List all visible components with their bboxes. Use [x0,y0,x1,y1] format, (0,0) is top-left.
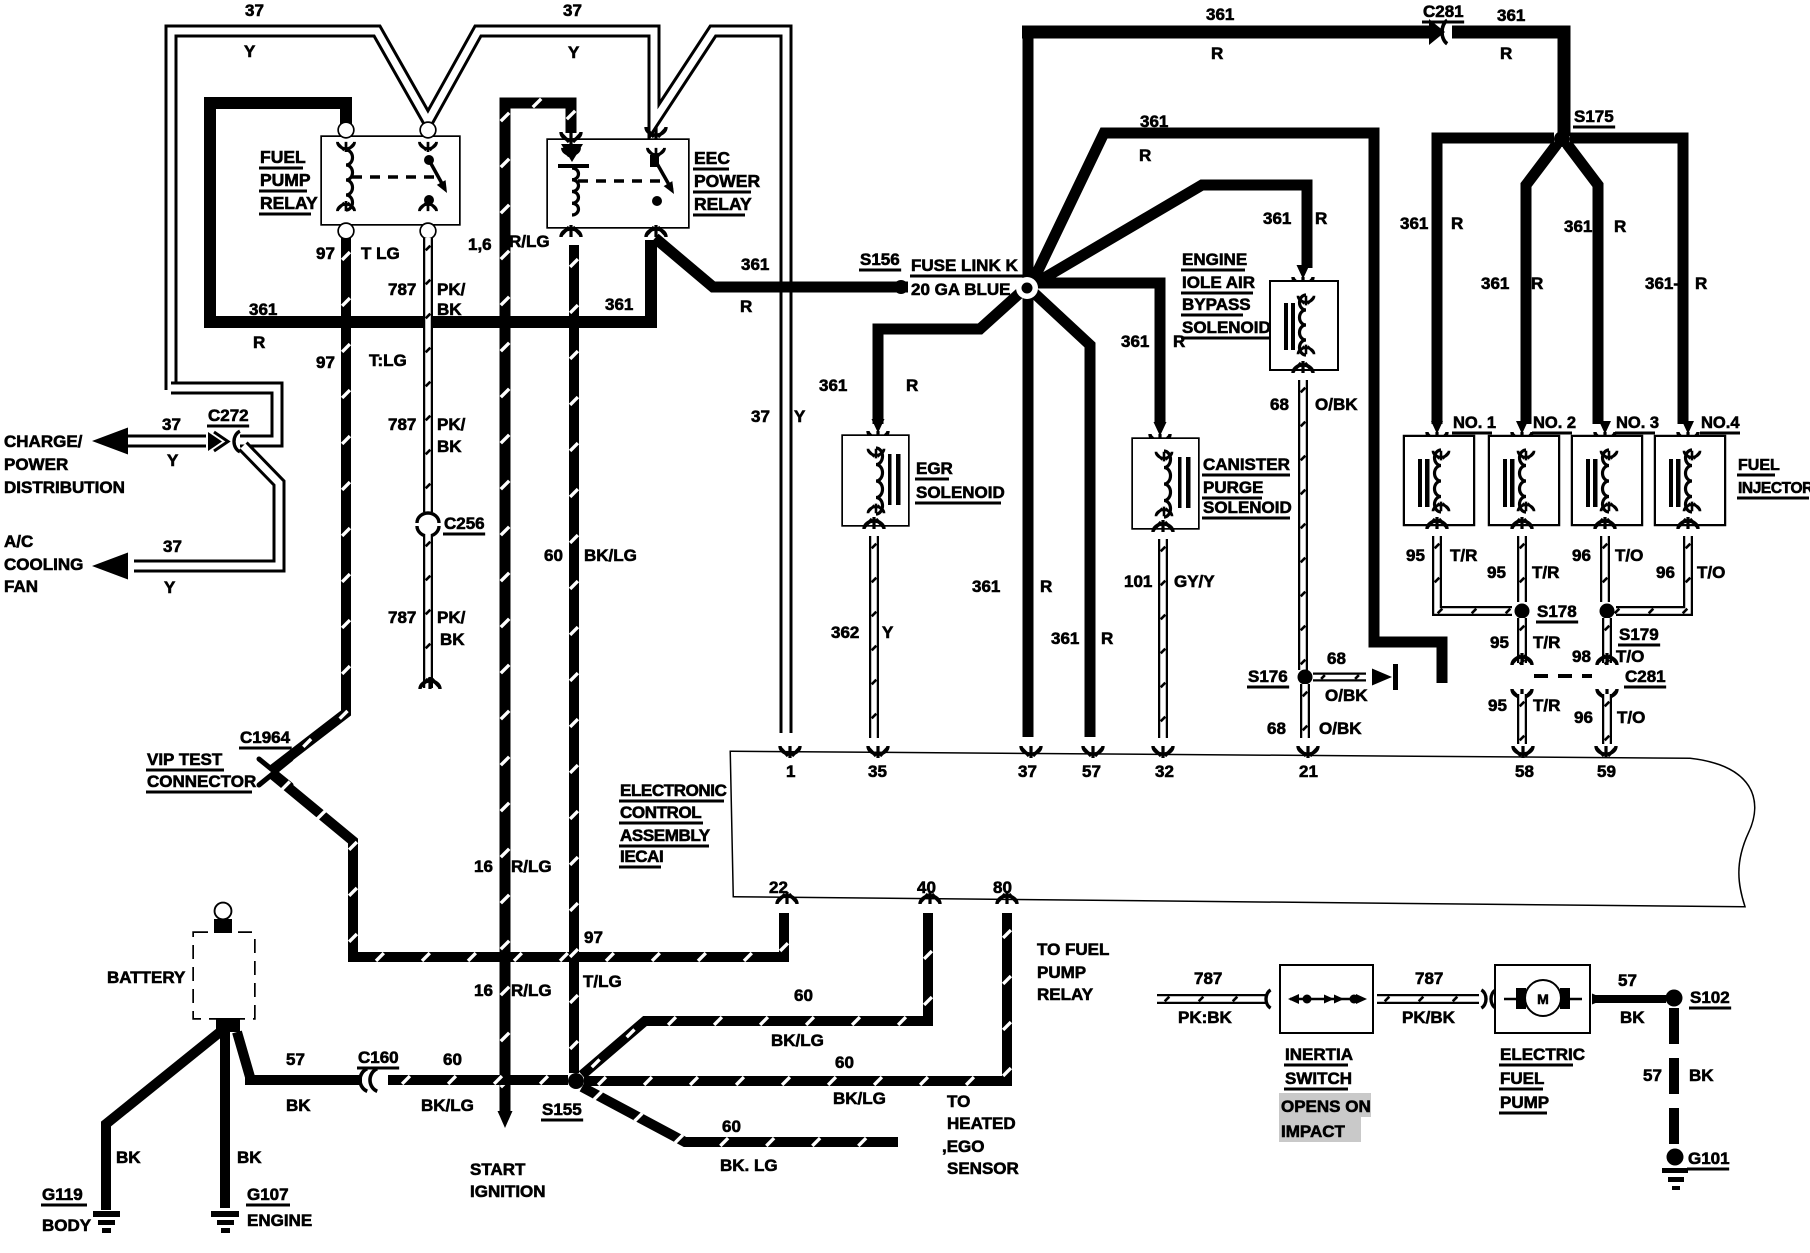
svg-text:PUMP: PUMP [1500,1093,1549,1112]
label EGR SOLENOID [915,459,1005,505]
svg-text:START: START [470,1160,526,1179]
svg-text:PK:BK: PK:BK [1178,1008,1233,1027]
wire 361 R S175 to injector NO.3 [1567,144,1598,424]
svg-text:97: 97 [316,244,335,263]
svg-text:FAN: FAN [4,577,38,596]
svg-text:T/O: T/O [1697,563,1725,582]
label 95 (inj2) [1487,563,1506,582]
pin 59 ECA top [1596,746,1616,781]
label 787 (relay out) [388,280,416,299]
label BK (batt) [286,1096,311,1115]
label 787 (left) [1194,969,1222,988]
svg-text:CANISTER: CANISTER [1203,455,1290,474]
svg-text:95: 95 [1490,633,1509,652]
text TO FUEL PUMP RELAY [1037,940,1109,1004]
label 95 (pin58) [1488,696,1507,715]
coil bypass [1298,295,1314,355]
wire 96 T/O S179 to C281 [1605,618,1610,664]
relay box EEC power relay [548,140,688,227]
label 361 (no.3 feed) [1564,217,1592,236]
coil canister purge [1156,451,1172,517]
wire terminal arrow into canister purge [1150,422,1170,446]
label 361 (egr feed) [819,376,847,395]
label C281 lower [1624,667,1666,689]
svg-text:S156: S156 [860,250,900,269]
label NO. 1 [1452,414,1496,435]
splice S175 [1554,131,1570,147]
inertia switch internals [1288,994,1367,1004]
wire 37 Y jog to C272 [171,388,277,441]
label 60 (pin80) [835,1053,854,1072]
svg-text:361: 361 [1564,217,1592,236]
text A/C COOLING FAN [4,532,83,596]
label 37 (top left) [245,1,264,20]
label T/O (inj3) [1615,546,1643,565]
terminal EEC bottom-left [561,225,581,237]
label BK (g101) [1689,1066,1714,1085]
label 361 (S156 wire) [741,255,769,274]
svg-text:A/C: A/C [4,532,33,551]
motor electric fuel pump [1504,981,1582,1015]
wire 361 R S175 right branch to injector NO.4 [1570,138,1683,424]
label S156 [859,250,901,272]
svg-text:60: 60 [835,1053,854,1072]
svg-text:FUEL: FUEL [1738,457,1780,474]
wire 95 T/R S178 to C281 [1520,618,1525,664]
svg-text:Y: Y [794,407,806,426]
wire 97 T LG lower [272,774,788,961]
svg-text:BK: BK [440,630,465,649]
wire 787 PK/BK lower [426,534,431,688]
svg-text:361: 361 [1481,274,1509,293]
wire 95 T/R C281 to ECA pin 58 [1520,694,1525,744]
connector pair at fuel pump [1481,990,1495,1008]
terminal fuel relay top-right [420,123,437,152]
wire 37 Y to charge/power distribution [92,428,206,455]
label R (no.2 feed) [1531,274,1543,293]
label R (no.3 feed) [1614,217,1626,236]
label 362 [831,623,859,642]
svg-text:T/R: T/R [1533,696,1560,715]
svg-text:361: 361 [249,300,277,319]
wire 60 BK/LG S155 to ECA pin 40 [582,913,932,1075]
svg-text:INERTIA: INERTIA [1285,1045,1353,1064]
label T/O (inj4) [1697,563,1725,582]
label VIP TEST CONNECTOR [146,750,256,794]
svg-text:ELECTRIC: ELECTRIC [1500,1045,1585,1064]
svg-text:361: 361 [1051,629,1079,648]
wire 362 Y EGR to ECA pin 35 [872,536,877,738]
svg-text:TO FUEL: TO FUEL [1037,940,1109,959]
svg-text:,EGO: ,EGO [942,1137,985,1156]
splice S179 [1600,604,1615,619]
box canister purge solenoid [1133,439,1198,528]
svg-text:59: 59 [1597,762,1616,781]
svg-text:C272: C272 [208,406,249,425]
svg-text:NO. 3: NO. 3 [1616,414,1659,432]
wire 361 R S175 left branch to injector NO.1 [1437,138,1554,424]
svg-text:R: R [1101,629,1113,648]
label 95 (s178 lower) [1490,633,1509,652]
label EEC POWER RELAY [693,148,760,217]
wire 68 O/BK S176 to ECA pin 21 [1303,684,1308,738]
splice S102 [1666,990,1683,1007]
wire 57 BK pump to S102 [1592,994,1666,1005]
svg-text:60: 60 [722,1117,741,1136]
svg-text:S178: S178 [1537,602,1577,621]
relay box fuel pump relay [322,137,459,224]
label T/R (inj2) [1532,563,1559,582]
label R (S156 wire) [740,297,752,316]
svg-text:16: 16 [474,981,493,1000]
label 361 (bus right) [1497,6,1525,25]
svg-text:37: 37 [751,407,770,426]
connector C281 (top bus) [1429,19,1447,45]
svg-text:ENGINE: ENGINE [1182,250,1247,269]
svg-text:C281: C281 [1423,2,1464,21]
svg-text:37: 37 [245,1,264,20]
svg-text:R: R [1315,209,1327,228]
svg-text:37: 37 [563,1,582,20]
svg-text:BK: BK [286,1096,311,1115]
label PK/ (upper) [437,415,466,434]
label R/LG (upper) [509,232,550,251]
label G101 [1687,1149,1730,1171]
svg-text:S102: S102 [1690,988,1730,1007]
svg-text:57: 57 [1643,1066,1662,1085]
label 361 (pin57) [1051,629,1079,648]
wire 361 R top bus to C281 [1022,26,1434,39]
label R (bus left) [1211,44,1223,63]
svg-text:BK: BK [237,1148,262,1167]
label 16 (mid) [474,857,493,876]
svg-text:BK: BK [437,300,462,319]
svg-text:95: 95 [1488,696,1507,715]
label 60 (pin40) [794,986,813,1005]
wire terminal arrow into bypass solenoid [1293,265,1313,289]
svg-text:IECAI: IECAI [620,847,663,866]
label CANISTER PURGE SOLENOID [1202,455,1292,520]
svg-text:1,6: 1,6 [468,235,492,254]
svg-text:80: 80 [993,878,1012,897]
ground G101 [1662,1168,1688,1190]
wire 361 R junction diagonal to ECA pin 57 [1033,292,1090,737]
svg-text:S175: S175 [1574,107,1614,126]
svg-text:Y: Y [244,42,256,61]
wire 16 R/LG [501,99,575,1113]
svg-text:G119: G119 [42,1185,83,1204]
label R (bypass feed) [1315,209,1327,228]
label 57 (g101) [1643,1066,1662,1085]
svg-text:37: 37 [163,537,182,556]
wire 361 R junction to canister purge [1035,283,1160,424]
label T/R (inj1) [1450,546,1477,565]
svg-text:BK/LG: BK/LG [771,1031,824,1050]
label 60 (c160) [443,1050,462,1069]
label G107 ENGINE [246,1185,312,1230]
svg-text:G107: G107 [247,1185,289,1204]
svg-text:RELAY: RELAY [260,193,318,213]
label 361 (bypass feed) [1263,209,1291,228]
label BK (relay out) [437,300,462,319]
coil injector NO.4 [1684,450,1700,512]
svg-text:361: 361 [1206,5,1234,24]
terminal EEC bottom-right [646,225,666,237]
label 787 (right) [1415,969,1443,988]
wire 361 R top bus C281 to S175 [1452,32,1564,136]
wire 68 O/BK bypass to S176 [1301,380,1306,670]
wire 96 T/O injector4 to S179 [1615,536,1691,613]
terminal EGR bottom [864,517,884,529]
svg-text:R: R [1500,44,1512,63]
svg-text:INJECTORS: INJECTORS [1738,480,1810,497]
valve bars injector NO. 1 [1418,459,1430,507]
terminal injector NO. 1 bottom [1427,517,1447,529]
box fuel injector NO. 3 [1573,437,1641,524]
label 37 (charge) [162,415,181,434]
svg-text:BODY: BODY [42,1216,92,1235]
splice S176 [1298,670,1313,685]
svg-text:T/O: T/O [1615,546,1643,565]
svg-text:R: R [1451,214,1463,233]
svg-text:95: 95 [1487,563,1506,582]
pin 57 ECA top [1082,746,1103,781]
label 57 (pump) [1618,971,1637,990]
valve bars EGR [888,454,901,505]
wire battery to G107 [220,1030,230,1208]
label 97 (to pin22) [584,928,603,947]
svg-text:PK/: PK/ [437,415,466,434]
svg-text:CONTROL: CONTROL [620,803,701,822]
terminal fuel relay bottom-left [338,201,355,238]
pin 58 ECA top [1513,746,1534,781]
terminal EEC top-right [646,127,666,158]
svg-text:BK/LG: BK/LG [421,1096,474,1115]
wire 361 R S175 to injector NO.2 [1526,144,1557,424]
wire 787 PK:BK to inertia switch [1157,997,1266,1002]
svg-text:C256: C256 [444,514,485,533]
svg-text:SOLENOID: SOLENOID [1182,318,1271,337]
svg-text:57: 57 [286,1050,305,1069]
wire 361 R junction diagonal to bypass solenoid [1034,185,1307,284]
wire 57 BK S102 to G101 (dashed) [1669,1008,1679,1150]
svg-text:RELAY: RELAY [1037,985,1094,1004]
label S155 [541,1100,583,1122]
label 98 (s179 lower) [1572,647,1591,666]
label FUEL PUMP RELAY [259,147,318,216]
label BK (g119) [116,1148,141,1167]
ground G119 [93,1211,120,1233]
terminal 787 end claw [420,677,440,689]
label 37 (top middle) [563,1,582,20]
wire terminal arrow into EGR [868,419,888,443]
svg-text:M: M [1537,991,1549,1007]
box idle air bypass solenoid [1271,282,1337,369]
svg-text:IOLE AIR: IOLE AIR [1182,273,1255,292]
pin 22 ECA bottom [769,878,797,904]
svg-text:361: 361 [1497,6,1525,25]
label 787 (upper) [388,415,416,434]
label Y (top left) [244,42,256,61]
label R (no.4 feed) [1695,274,1707,293]
wire battery to G119 [106,1028,225,1210]
label PK/ (relay out) [437,280,466,299]
svg-text:98: 98 [1572,647,1591,666]
label Y (362) [882,623,894,642]
svg-text:R/LG: R/LG [509,232,550,251]
svg-text:ASSEMBLY: ASSEMBLY [620,826,711,845]
svg-text:57: 57 [1618,971,1637,990]
label 361 (no.1 feed) [1400,214,1428,233]
svg-text:FUEL: FUEL [1500,1069,1544,1088]
label Y (vertical to ECA pin 1) [794,407,806,426]
svg-text:787: 787 [1415,969,1443,988]
svg-text:SOLENOID: SOLENOID [916,483,1005,502]
svg-text:R/LG: R/LG [511,981,552,1000]
label R (bus right) [1500,44,1512,63]
svg-text:T/O: T/O [1617,708,1645,727]
label BK/LG (pin40) [771,1031,824,1050]
svg-text:SENSOR: SENSOR [947,1159,1019,1178]
svg-text:DISTRIBUTION: DISTRIBUTION [4,478,125,497]
wire 60 BK/LG S155 to ECA pin 80 [584,913,1011,1085]
pin 32 ECA top [1153,746,1174,781]
fuel injector NO.4 feed terminal [1678,421,1698,444]
svg-text:C281: C281 [1625,667,1666,686]
wire 60 BK.LG S155 to heated EGO sensor [582,1087,898,1146]
battery [194,904,254,1033]
label T/LG (to pin22) [583,972,622,991]
svg-text:101: 101 [1124,572,1152,591]
wire 96 T/O C281 to ECA pin 59 [1605,694,1610,744]
connector C281 lower left [1512,653,1532,701]
label 95 (inj1) [1406,546,1425,565]
svg-text:R: R [1211,44,1223,63]
svg-text:R: R [906,376,918,395]
label Y (charge) [167,451,179,470]
wire 361 R junction diagonal to y133 bus [1033,133,1442,683]
svg-text:HEATED: HEATED [947,1114,1016,1133]
ground G107 [211,1211,239,1233]
text ELECTRONIC CONTROL ASSEMBLY (ECA) [619,781,727,869]
svg-text:PK/: PK/ [437,608,466,627]
label R (pin57) [1101,629,1113,648]
label C272 [207,406,249,428]
label S102 [1689,988,1731,1010]
connector C281 lower right [1597,653,1617,701]
pin 80 ECA bottom [993,878,1017,904]
valve bars injector NO. 3 [1586,459,1598,507]
svg-text:361: 361 [1121,332,1149,351]
svg-text:S155: S155 [542,1100,582,1119]
wire 95 T/R injector1 to S178 [1435,536,1512,613]
label 96 (inj4) [1656,563,1675,582]
label BK/LG (pin80) [833,1089,886,1108]
box fuel injector NO. 2 [1490,437,1558,524]
svg-text:37: 37 [1018,762,1037,781]
svg-text:O/BK: O/BK [1319,719,1362,738]
label S176 [1247,667,1289,689]
pin 35 ECA top [868,746,888,781]
svg-text:BK. LG: BK. LG [720,1156,778,1175]
label 361- (no.4 feed) [1645,274,1679,293]
label 361 (no.2 feed) [1481,274,1509,293]
svg-text:37: 37 [162,415,181,434]
splice S156 fuse link K [894,280,908,294]
label 97 (relay out) [316,244,335,263]
svg-text:R: R [253,333,265,352]
valve bars bypass [1284,303,1295,350]
label BK (pump) [1620,1008,1645,1027]
svg-text:PUMP: PUMP [260,170,311,190]
svg-text:Y: Y [568,43,580,62]
svg-text:TO: TO [947,1092,970,1111]
svg-text:EEC: EEC [694,148,730,168]
splice S155 [568,1073,584,1089]
label T/R (pin58) [1533,696,1560,715]
svg-text:40: 40 [917,878,936,897]
label 16 (lower) [474,981,493,1000]
svg-text:BK: BK [437,437,462,456]
svg-text:68: 68 [1327,649,1346,668]
label ELECTRIC FUEL PUMP [1499,1045,1585,1115]
svg-text:21: 21 [1299,762,1318,781]
coil injector NO. 1 [1433,450,1449,512]
svg-text:R: R [1139,146,1151,165]
svg-text:FUEL: FUEL [260,147,306,167]
label R (loop left) [253,333,265,352]
label FUEL INJECTORS [1737,457,1810,500]
svg-text:96: 96 [1574,708,1593,727]
terminal injector NO. 2 bottom [1512,517,1532,529]
label 68 (spur) [1327,649,1346,668]
label 20 GA BLUE [911,280,1011,299]
label BK (g107) [237,1148,262,1167]
box fuel injector NO.4 [1656,437,1724,524]
label FUSE LINK K [910,256,1026,278]
wire 361 R junction to ECA pin 37 [1023,294,1034,737]
label Y (top middle) [568,43,580,62]
wire 57 BK battery to C160 [237,1032,362,1080]
connector C160 [360,1069,377,1092]
label 57 (batt) [286,1050,305,1069]
label R (y133 bus) [1139,146,1151,165]
svg-text:16: 16 [474,857,493,876]
wire 60 BK/LG C160 to S155 [388,1076,568,1084]
svg-text:361: 361 [1263,209,1291,228]
svg-text:O/BK: O/BK [1325,686,1368,705]
pin 37 ECA top [1018,746,1041,781]
svg-text:NO. 1: NO. 1 [1453,414,1496,432]
label S178 [1536,602,1578,624]
svg-text:R: R [1531,274,1543,293]
svg-text:POWER: POWER [694,171,760,191]
svg-text:R: R [1695,274,1707,293]
coil EGR [868,448,884,514]
box electronic control assembly ECA [731,752,1754,906]
svg-text:OPENS ON: OPENS ON [1281,1097,1371,1116]
label BK (lower) [440,630,465,649]
svg-text:GY/Y: GY/Y [1174,572,1215,591]
label O/BK (spur) [1325,686,1368,705]
box electric fuel pump [1496,966,1589,1032]
splice S178 [1515,604,1530,619]
svg-text:787: 787 [388,280,416,299]
svg-text:T/O: T/O [1616,647,1644,666]
connector arrow into 361 jog [1372,664,1398,690]
svg-text:RELAY: RELAY [694,194,752,214]
wire 787 PK/BK upper [426,238,431,512]
